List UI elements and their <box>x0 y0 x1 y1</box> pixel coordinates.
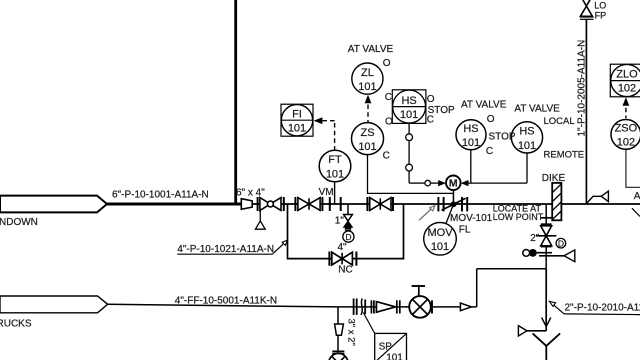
svg-text:HS: HS <box>401 95 416 107</box>
svg-text:3" x 2": 3" x 2" <box>346 319 357 346</box>
svg-text:C: C <box>427 115 434 126</box>
svg-text:O: O <box>385 117 393 128</box>
svg-text:4"-FF-10-5001-A11K-N: 4"-FF-10-5001-A11K-N <box>175 296 277 307</box>
svg-text:102: 102 <box>617 137 635 149</box>
svg-text:101: 101 <box>518 140 536 152</box>
svg-text:101: 101 <box>358 141 376 153</box>
svg-text:RUCKS: RUCKS <box>0 319 32 330</box>
svg-text:AT VALVE: AT VALVE <box>461 100 507 111</box>
svg-text:101: 101 <box>462 137 480 149</box>
svg-text:A: A <box>634 191 640 202</box>
svg-text:ZLO: ZLO <box>616 69 638 81</box>
svg-text:4": 4" <box>338 242 348 253</box>
svg-text:1"-P-10-2005-A11A-N: 1"-P-10-2005-A11A-N <box>576 40 587 137</box>
svg-text:C: C <box>383 150 390 161</box>
svg-text:O: O <box>427 94 435 105</box>
svg-text:STOP: STOP <box>489 131 516 142</box>
svg-text:D: D <box>345 232 351 242</box>
svg-text:ZS: ZS <box>360 127 374 139</box>
svg-text:C: C <box>486 146 493 157</box>
svg-text:101: 101 <box>431 241 449 253</box>
svg-text:2": 2" <box>530 233 540 244</box>
svg-text:NDOWN: NDOWN <box>0 217 38 228</box>
svg-text:D: D <box>558 238 564 248</box>
svg-text:4"-P-10-1021-A11A-N: 4"-P-10-1021-A11A-N <box>177 244 274 255</box>
svg-text:101: 101 <box>400 109 418 121</box>
svg-text:DIKE: DIKE <box>542 173 566 184</box>
svg-text:LOW POINT: LOW POINT <box>493 212 544 222</box>
svg-text:O: O <box>487 114 495 125</box>
svg-text:C: C <box>385 92 392 103</box>
svg-text:101: 101 <box>288 123 306 135</box>
svg-text:101: 101 <box>358 81 376 93</box>
svg-text:MOV: MOV <box>427 227 453 239</box>
svg-text:AT VALVE: AT VALVE <box>514 104 560 115</box>
svg-text:6"-P-10-1001-A11A-N: 6"-P-10-1001-A11A-N <box>112 190 209 201</box>
svg-text:LOCAL: LOCAL <box>544 116 575 127</box>
svg-text:HS: HS <box>463 123 478 135</box>
svg-text:ZL: ZL <box>361 67 374 79</box>
svg-text:O: O <box>383 58 391 69</box>
svg-text:1": 1" <box>335 216 345 227</box>
svg-text:VM: VM <box>319 187 334 198</box>
svg-text:FP: FP <box>595 10 607 20</box>
svg-text:REMOTE: REMOTE <box>544 150 585 161</box>
svg-text:LO: LO <box>594 0 606 10</box>
svg-text:FI: FI <box>292 108 302 120</box>
svg-text:102: 102 <box>618 82 636 94</box>
svg-text:6" x 4": 6" x 4" <box>236 188 265 199</box>
svg-text:ZSO: ZSO <box>615 122 638 134</box>
svg-text:101: 101 <box>386 353 403 360</box>
svg-text:FT: FT <box>328 154 342 166</box>
svg-text:AT VALVE: AT VALVE <box>348 44 394 55</box>
svg-text:101: 101 <box>326 168 344 180</box>
svg-text:NC: NC <box>338 265 352 276</box>
svg-text:M: M <box>449 178 458 190</box>
svg-text:HS: HS <box>519 126 534 138</box>
svg-text:MOV-101: MOV-101 <box>450 213 493 224</box>
svg-text:SP: SP <box>379 341 393 352</box>
svg-text:2"-P-10-2010-A11A: 2"-P-10-2010-A11A <box>565 303 640 314</box>
svg-text:FL: FL <box>459 224 471 235</box>
